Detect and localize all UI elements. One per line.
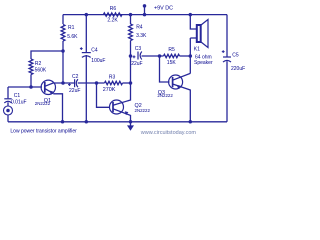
svg-text:2N2222: 2N2222: [135, 108, 151, 113]
svg-text:5.6K: 5.6K: [67, 34, 78, 40]
svg-text:220uF: 220uF: [231, 66, 245, 72]
svg-text:22uF: 22uF: [131, 61, 142, 67]
svg-text:www.circuitstoday.com: www.circuitstoday.com: [140, 130, 197, 136]
svg-text:Speaker: Speaker: [194, 60, 213, 66]
svg-text:2N2222: 2N2222: [35, 101, 51, 106]
svg-text:C1: C1: [14, 93, 21, 99]
svg-text:+9V DC: +9V DC: [154, 5, 173, 11]
svg-text:2.2K: 2.2K: [107, 18, 118, 24]
svg-text:0.01uF: 0.01uF: [11, 99, 27, 105]
svg-text:22uF: 22uF: [69, 88, 81, 94]
svg-text:R2: R2: [35, 61, 42, 67]
svg-text:R3: R3: [109, 75, 116, 81]
svg-text:C4: C4: [91, 48, 98, 54]
svg-text:R5: R5: [168, 47, 175, 53]
svg-text:C3: C3: [135, 46, 142, 52]
svg-text:Low power transistor amplifier: Low power transistor amplifier: [10, 129, 77, 135]
svg-text:3.3K: 3.3K: [136, 33, 147, 39]
svg-text:270K: 270K: [103, 87, 116, 93]
svg-text:R4: R4: [136, 25, 143, 31]
svg-text:K1: K1: [194, 47, 200, 53]
svg-text:2N2222: 2N2222: [157, 93, 173, 98]
svg-text:C2: C2: [72, 74, 79, 80]
svg-text:C5: C5: [232, 53, 239, 59]
svg-text:100uF: 100uF: [91, 58, 105, 64]
svg-text:R6: R6: [110, 6, 117, 12]
svg-text:560K: 560K: [35, 68, 47, 74]
svg-text:R1: R1: [68, 25, 75, 31]
svg-text:15K: 15K: [167, 60, 177, 66]
